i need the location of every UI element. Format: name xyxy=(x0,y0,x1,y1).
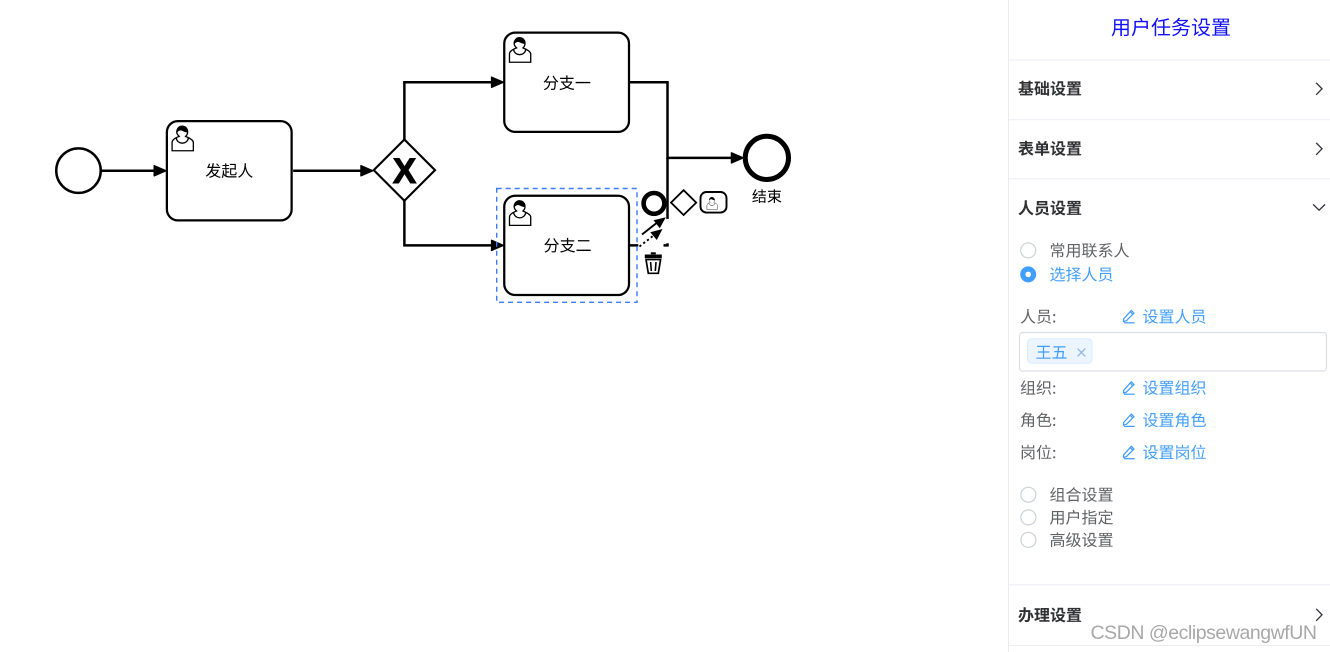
wire: sequence flow gateway→分支一 (up then right) xyxy=(404,77,503,140)
tag text 王五 xyxy=(1036,346,1066,359)
label 分支二 xyxy=(544,238,590,253)
context pad: global connect (dotted arrow) xyxy=(640,229,663,247)
user task 发起人 box xyxy=(167,121,292,220)
section header 基础设置 xyxy=(1018,81,1081,96)
edit icon 设置人员 xyxy=(1124,310,1135,322)
label 组织: xyxy=(1021,380,1056,395)
link 设置岗位 xyxy=(1143,445,1206,460)
chevron 人员设置 (expanded, down) xyxy=(1313,204,1325,210)
end event circle (thick) xyxy=(745,136,788,179)
wire: sequence flow 分支二→junction xyxy=(630,158,668,246)
label 角色: xyxy=(1021,412,1055,427)
context pad: connect tool (solid arrow) xyxy=(642,217,666,234)
panel title 用户任务设置 xyxy=(1112,18,1230,37)
edit icon 设置组织 xyxy=(1124,382,1135,394)
context pad: delete (trash) xyxy=(645,252,662,273)
section header 人员设置 xyxy=(1018,200,1081,215)
context pad: append gateway (diamond) xyxy=(671,190,696,215)
user task 分支一 box xyxy=(504,33,629,132)
start event circle xyxy=(56,148,101,192)
section header 表单设置 xyxy=(1018,141,1081,156)
exclusive gateway diamond xyxy=(374,140,435,201)
radio label 常用联系人 xyxy=(1051,243,1129,258)
label 发起人 xyxy=(206,163,253,178)
user task 分支二 box xyxy=(504,196,629,295)
wire: sequence flow 分支一→junction→end event xyxy=(630,82,743,163)
svg-text:X: X xyxy=(393,152,417,191)
svg-text:CSDN @eclipsewangwfUN: CSDN @eclipsewangwfUN xyxy=(1091,622,1317,644)
label 结束 xyxy=(752,189,781,203)
context pad: append end event (ring) xyxy=(644,193,665,214)
right settings panel xyxy=(1008,0,1330,652)
radio 常用联系人 (unchecked) xyxy=(1021,243,1036,258)
link 设置人员 xyxy=(1143,309,1205,324)
divider lines xyxy=(1009,60,1330,61)
edit icon 设置岗位 xyxy=(1124,446,1135,458)
radio 高级设置 (unchecked) xyxy=(1021,532,1036,547)
radio label 用户指定 xyxy=(1050,510,1113,525)
radio 选择人员 (checked) xyxy=(1020,266,1036,282)
tag close × xyxy=(1078,349,1086,357)
label 岗位: xyxy=(1022,445,1056,460)
section header 办理设置 xyxy=(1018,607,1081,622)
radio 组合设置 (unchecked) xyxy=(1021,487,1036,502)
radio label 组合设置 xyxy=(1050,487,1112,502)
context pad: append user task (rounded square with person) xyxy=(701,192,727,213)
chevron 基础设置 xyxy=(1316,83,1322,95)
label 人员: xyxy=(1021,309,1056,324)
link 设置组织 xyxy=(1143,380,1205,395)
watermark CSDN @eclipsewangwfUN xyxy=(1091,622,1317,644)
chevron 办理设置 xyxy=(1316,609,1322,621)
radio label 选择人员 xyxy=(1050,267,1112,282)
wire: sequence flow 发起人→gateway xyxy=(293,166,373,176)
radio 用户指定 (unchecked) xyxy=(1021,510,1036,525)
tag 王五 xyxy=(1028,339,1093,364)
context pad white backing xyxy=(638,216,669,248)
gateway X marker xyxy=(393,152,417,191)
wire: sequence flow gateway→分支二 (down then right) xyxy=(404,200,503,250)
wire: sequence flow start→发起人 xyxy=(101,166,166,176)
chevron 表单设置 xyxy=(1316,143,1322,155)
radio label 高级设置 xyxy=(1050,532,1112,547)
label 分支一 xyxy=(544,75,591,90)
personnel input box xyxy=(1020,333,1327,372)
selection outline (dashed) around 分支二 xyxy=(497,189,637,303)
link 设置角色 xyxy=(1143,412,1206,427)
edit icon 设置角色 xyxy=(1124,414,1135,426)
